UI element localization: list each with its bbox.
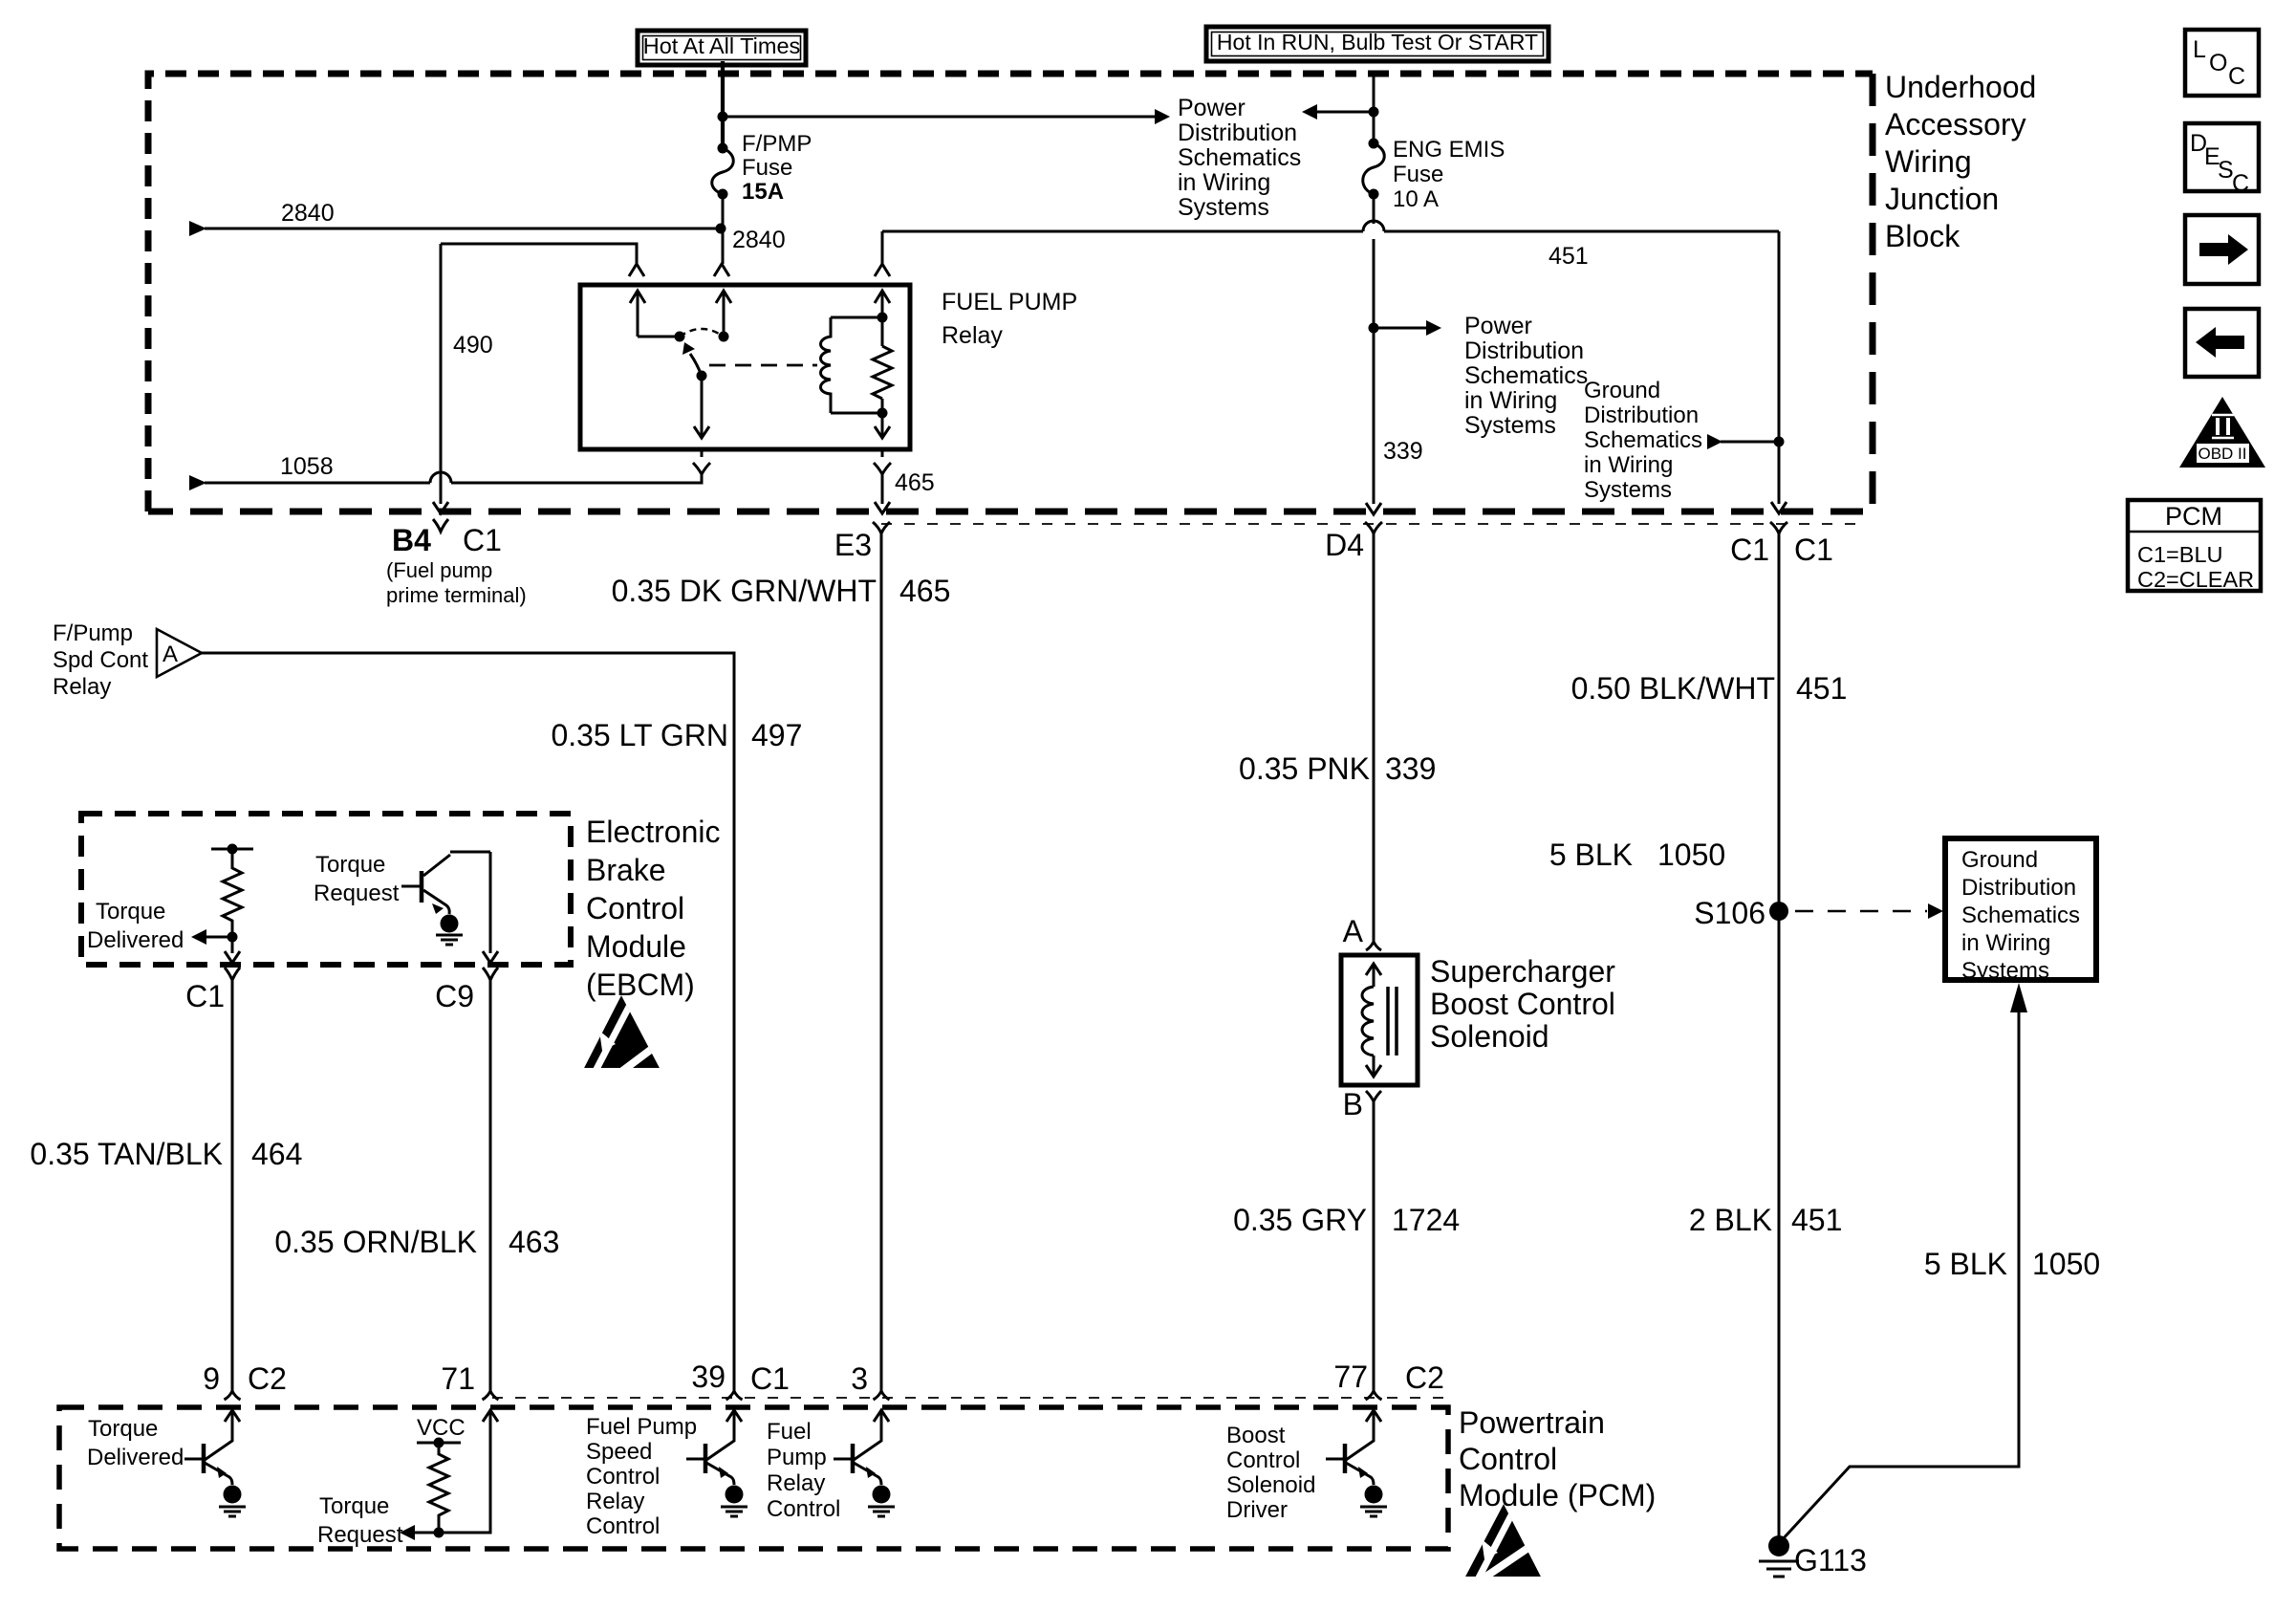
svg-text:5 BLK: 5 BLK — [1924, 1247, 2007, 1281]
svg-text:0.35 ORN/BLK: 0.35 ORN/BLK — [274, 1225, 477, 1259]
wire: reference arrow pointing left (Power Distribution) — [1302, 104, 1374, 120]
svg-text:Schematics: Schematics — [1961, 903, 2080, 928]
fuse ENG EMIS 10 A — [1363, 139, 1385, 200]
svg-text:451: 451 — [1796, 671, 1847, 706]
ground G113 — [1759, 1535, 1799, 1577]
wire: 451 line from relay pin3 corner to C1 corner (hop at ENG EMIS) — [882, 221, 1779, 231]
connector chevron above relay pin 3 — [875, 264, 890, 276]
svg-text:Systems: Systems — [1178, 194, 1269, 221]
label: 5 BLK 1050 (lower) — [1924, 1247, 2100, 1281]
node: coil bottom — [877, 408, 888, 419]
connector chevron solenoid pin A — [1366, 942, 1381, 950]
svg-text:Fuse: Fuse — [1393, 162, 1443, 187]
node: junction to right reference arrow — [1369, 323, 1379, 334]
svg-text:in Wiring: in Wiring — [1584, 452, 1673, 478]
svg-text:Supercharger: Supercharger — [1430, 954, 1615, 989]
label: Power Distribution Schematics in Wiring Systems (right block) — [1464, 313, 1588, 439]
svg-text:Request: Request — [317, 1522, 403, 1548]
wire: 1724 GRY from solenoid B to PCM pin 77 — [1373, 1107, 1375, 1392]
svg-text:Solenoid: Solenoid — [1430, 1019, 1549, 1054]
legend box: arrow left — [2185, 309, 2259, 377]
svg-text:Control: Control — [767, 1496, 840, 1522]
svg-text:15A: 15A — [742, 179, 784, 205]
svg-text:F/PMP: F/PMP — [742, 131, 812, 157]
svg-text:39: 39 — [691, 1360, 726, 1394]
connector chevron pin 71 — [483, 1391, 499, 1400]
wire: 463 down to PCM pin 71 — [489, 985, 492, 1392]
relay pin 1 internal terminal arrow — [630, 291, 645, 337]
svg-text:Distribution: Distribution — [1961, 875, 2076, 901]
wire: fuse to 2840 junction — [722, 194, 725, 228]
label box: Hot In RUN, Bulb Test Or START — [1206, 27, 1549, 61]
wire: reference arrow to Power Distribution Schematics (right) — [1374, 320, 1441, 336]
svg-text:0.35 TAN/BLK: 0.35 TAN/BLK — [30, 1137, 223, 1171]
wire: 497 from triangle A to PCM pin 39 — [202, 653, 734, 1392]
relay internal resistor (parallel with coil) — [873, 346, 892, 399]
svg-text:10 A: 10 A — [1393, 186, 1439, 212]
svg-text:C2=CLEAR: C2=CLEAR — [2137, 567, 2254, 592]
ground: pin 3 transistor emitter — [868, 1486, 895, 1517]
wire: C1 vertical inside junction block with arrow — [1771, 231, 1787, 513]
ESD symbol (PCM) — [1465, 1504, 1549, 1599]
svg-text:Hot At All Times: Hot At All Times — [643, 33, 801, 58]
svg-text:C: C — [2228, 63, 2245, 90]
ground: pin 77 transistor emitter — [1360, 1486, 1387, 1517]
wire: ground box down to G113 (arrow up into box) — [1782, 983, 2027, 1540]
dashed arc between contacts — [680, 329, 724, 337]
svg-text:Relay: Relay — [53, 674, 111, 700]
legend box: DESC — [2185, 123, 2259, 197]
svg-text:O: O — [2209, 50, 2227, 76]
relay box: FUEL PUMP Relay — [580, 285, 910, 449]
svg-text:C1: C1 — [185, 979, 225, 1013]
svg-text:Delivered: Delivered — [87, 927, 184, 953]
solenoid coil with terminal arrows — [1362, 964, 1381, 1077]
node: coil top — [877, 313, 888, 323]
svg-text:Control: Control — [586, 891, 684, 925]
node: pin 2 fixed contact — [719, 332, 729, 342]
label: Powertrain Control Module (PCM) — [1459, 1405, 1656, 1512]
label: F/PMP Fuse 15A — [742, 131, 812, 205]
node: junction to left reference arrow — [1369, 107, 1379, 118]
label: F/Pump Spd Cont Relay — [53, 620, 148, 700]
svg-text:Brake: Brake — [586, 853, 666, 887]
wire: 465 from relay pin 3 to border with arrow — [875, 474, 890, 513]
svg-text:Accessory: Accessory — [1885, 107, 2026, 141]
relay coil — [821, 317, 832, 413]
arrow: D4 wire into border — [1366, 503, 1381, 514]
ground: pin 9 transistor emitter — [219, 1486, 246, 1517]
svg-text:451: 451 — [1791, 1203, 1842, 1237]
svg-text:Request: Request — [314, 881, 400, 906]
svg-text:77: 77 — [1333, 1360, 1368, 1394]
svg-text:Hot In RUN, Bulb Test Or START: Hot In RUN, Bulb Test Or START — [1217, 30, 1538, 54]
svg-text:490: 490 — [453, 332, 493, 359]
svg-text:Torque: Torque — [315, 852, 385, 878]
label: Ground Distribution Schematics in Wiring Systems (text block) — [1584, 378, 1702, 503]
box: Ground Distribution Schematics in Wiring Systems — [1945, 838, 2096, 984]
solenoid core bars — [1388, 987, 1397, 1055]
wire: ENG EMIS fuse down to D4 (with hop at 451 crossing) — [1373, 194, 1375, 504]
svg-text:Systems: Systems — [1464, 412, 1556, 439]
relay internal: switch common link — [638, 336, 680, 338]
node: junction on hot feed — [718, 112, 728, 122]
svg-text:451: 451 — [1549, 243, 1589, 270]
label: ENG EMIS Fuse 10 A — [1393, 137, 1505, 212]
node: splice S106 — [1769, 902, 1788, 921]
connector chevron above relay pin 1 — [629, 264, 644, 276]
legend: OBD II triangle — [2179, 397, 2265, 468]
connector chevron below relay pin 3 — [874, 451, 891, 483]
svg-text:0.35 PNK: 0.35 PNK — [1239, 751, 1370, 786]
svg-text:Delivered: Delivered — [87, 1445, 184, 1470]
wire: 464 down to PCM pin 9 — [231, 985, 234, 1392]
label: Torque Delivered (EBCM) — [87, 899, 184, 953]
label: 0.50 BLK/WHT 451 — [1571, 671, 1848, 706]
svg-text:Distribution: Distribution — [1464, 337, 1584, 364]
wire: 451 branch corner down to relay pin 3 — [881, 231, 884, 264]
svg-text:465: 465 — [895, 469, 935, 496]
node: torque delivered junction — [227, 932, 238, 943]
label: 0.35 DK GRN/WHT 465 — [612, 574, 951, 608]
wire: pin 71 internal with arrow — [439, 1410, 498, 1533]
svg-text:A: A — [162, 642, 178, 667]
connector chevron B4 — [433, 519, 448, 532]
svg-text:S106: S106 — [1694, 896, 1765, 930]
svg-text:339: 339 — [1385, 751, 1436, 786]
connector chevron above relay pin 2 — [714, 264, 729, 276]
svg-text:Ground: Ground — [1961, 847, 2038, 873]
svg-text:C1: C1 — [463, 523, 502, 557]
wire: hot feed from Hot At All Times down to F/PMP fuse — [721, 61, 725, 145]
svg-text:C2: C2 — [248, 1361, 287, 1396]
svg-text:463: 463 — [509, 1225, 559, 1259]
connector chevron C1 (EBCM) — [225, 968, 240, 987]
svg-text:F/Pump: F/Pump — [53, 620, 133, 646]
svg-text:D4: D4 — [1325, 528, 1364, 562]
svg-text:C1: C1 — [1730, 533, 1769, 567]
label: Supercharger Boost Control Solenoid — [1430, 954, 1615, 1054]
label: Torque Request (EBCM) — [314, 852, 400, 906]
wire: 490 feed line to relay pin 1 — [441, 244, 637, 264]
svg-text:0.35 LT GRN: 0.35 LT GRN — [551, 718, 728, 752]
wire: relay pin 3 down with arrow — [875, 413, 890, 438]
svg-text:Systems: Systems — [1961, 958, 2049, 984]
svg-text:Spd Cont: Spd Cont — [53, 647, 148, 673]
wire: coil top node link — [831, 316, 882, 319]
svg-text:Torque: Torque — [319, 1493, 389, 1519]
dashed reference from S106 to ground distribution box — [1795, 903, 1943, 919]
label: 0.35 LT GRN 497 — [551, 718, 802, 752]
svg-text:Fuel Pump: Fuel Pump — [586, 1414, 697, 1440]
wire: reference arrow to Power Distribution Schematics (right) — [723, 116, 1155, 119]
svg-text:Relay: Relay — [586, 1489, 644, 1514]
connector chevron pin 3 — [874, 1391, 890, 1400]
dashed mechanical linkage to coil — [709, 364, 817, 367]
label: Torque Delivered (PCM) — [87, 1416, 184, 1470]
svg-text:G113: G113 — [1794, 1543, 1867, 1577]
svg-text:Torque: Torque — [96, 899, 165, 925]
svg-text:(EBCM): (EBCM) — [586, 968, 695, 1002]
connector chevron C9 (EBCM) — [483, 968, 498, 987]
svg-text:A: A — [1343, 914, 1364, 948]
wire: EBCM C1 output with arrow — [225, 937, 240, 963]
label: Boost Control Solenoid Driver — [1226, 1423, 1315, 1523]
ground: pin 39 transistor emitter — [721, 1486, 747, 1517]
wire: 490 vertical down to B4 with arrow — [433, 244, 448, 513]
wire: 451 BLK/WHT from C1 down to G113 — [1778, 539, 1781, 1537]
svg-text:in Wiring: in Wiring — [1961, 930, 2050, 956]
svg-text:Relay: Relay — [942, 322, 1003, 349]
svg-text:in Wiring: in Wiring — [1464, 387, 1557, 414]
svg-text:PCM: PCM — [2165, 502, 2222, 531]
svg-text:C: C — [2232, 170, 2249, 197]
wire: torque request arrow (left) — [400, 1525, 439, 1540]
label box: Hot At All Times — [638, 31, 806, 65]
underhood accessory wiring junction block (dashed box) — [148, 74, 1873, 511]
transistor: boost control solenoid driver (pin 77) — [1326, 1410, 1381, 1485]
node: switch common contact — [675, 332, 685, 342]
svg-text:Control: Control — [1459, 1442, 1557, 1476]
svg-text:C1: C1 — [1794, 533, 1833, 567]
ESD symbol (EBCM) — [584, 989, 732, 1080]
connector chevron E3 — [873, 522, 890, 541]
label: FUEL PUMP Relay — [942, 289, 1077, 349]
svg-text:prime terminal): prime terminal) — [386, 583, 527, 607]
legend box: LOC — [2185, 30, 2259, 96]
svg-text:497: 497 — [751, 718, 802, 752]
label: Fuel Pump Relay Control — [767, 1419, 840, 1522]
svg-text:Module: Module — [586, 929, 686, 964]
label: (Fuel pump prime terminal) — [386, 558, 527, 607]
connector chevron solenoid pin B — [1366, 1091, 1381, 1109]
wire: ground distribution reference to C1 wire — [1707, 434, 1785, 449]
svg-text:0.35 DK GRN/WHT: 0.35 DK GRN/WHT — [612, 574, 877, 608]
wire: EBCM C9 output with arrow — [483, 852, 498, 963]
svg-text:L: L — [2193, 36, 2206, 63]
svg-text:Power: Power — [1464, 313, 1532, 339]
svg-text:9: 9 — [203, 1361, 220, 1396]
svg-text:Boost: Boost — [1226, 1423, 1286, 1448]
svg-text:Fuse: Fuse — [742, 155, 792, 181]
svg-text:C1=BLU: C1=BLU — [2137, 542, 2222, 567]
svg-text:464: 464 — [251, 1137, 302, 1171]
transistor: fuel pump relay driver (pin 3) — [834, 1410, 889, 1485]
off-page connector triangle A — [157, 629, 202, 677]
svg-text:2 BLK: 2 BLK — [1689, 1203, 1772, 1237]
svg-text:Block: Block — [1885, 219, 1960, 253]
svg-text:1058: 1058 — [280, 453, 334, 480]
svg-text:VCC: VCC — [417, 1415, 466, 1441]
connector chevron pin 77 — [1366, 1391, 1382, 1400]
svg-text:FUEL PUMP: FUEL PUMP — [942, 289, 1077, 315]
svg-text:OBD II: OBD II — [2198, 445, 2246, 463]
transistor: torque delivered driver (pin 9) — [184, 1410, 240, 1485]
svg-text:Boost Control: Boost Control — [1430, 987, 1615, 1021]
svg-text:339: 339 — [1383, 438, 1423, 465]
svg-text:C2: C2 — [1405, 1360, 1444, 1395]
svg-text:Wiring: Wiring — [1885, 144, 1972, 179]
relay switch arm with arrowhead — [682, 342, 702, 376]
wire: coil bottom node link — [831, 412, 882, 415]
connector chevron C1 (PCM harness) — [1770, 522, 1787, 541]
thin dashed connector line (PCM C1) — [492, 1397, 1448, 1399]
svg-text:2840: 2840 — [281, 200, 335, 227]
relay pin 3 internal terminal arrow — [875, 291, 890, 413]
node: 2840 junction — [716, 224, 726, 234]
connector chevron pin 39 — [726, 1391, 743, 1400]
svg-text:Distribution: Distribution — [1584, 402, 1699, 428]
legend box: arrow right — [2185, 215, 2259, 284]
svg-text:0.50 BLK/WHT: 0.50 BLK/WHT — [1571, 671, 1775, 706]
svg-text:C9: C9 — [435, 979, 474, 1013]
svg-text:Control: Control — [586, 1513, 660, 1539]
label: 0.35 ORN/BLK 463 — [274, 1225, 559, 1259]
svg-text:Relay: Relay — [767, 1470, 825, 1496]
svg-text:Powertrain: Powertrain — [1459, 1405, 1605, 1440]
EBCM internal resistor (torque delivered) — [211, 844, 253, 938]
svg-text:(Fuel pump: (Fuel pump — [386, 558, 492, 582]
svg-text:ENG EMIS: ENG EMIS — [1393, 137, 1505, 163]
thin dashed connector line (junction block bottom) — [881, 523, 1864, 525]
svg-text:Speed: Speed — [586, 1439, 652, 1465]
svg-text:Schematics: Schematics — [1584, 427, 1702, 453]
label: Underhood Accessory Wiring Junction Block — [1885, 70, 2036, 253]
svg-text:C1: C1 — [750, 1361, 790, 1396]
wire: torque delivered arrow (left) — [191, 929, 232, 945]
svg-text:Torque: Torque — [88, 1416, 158, 1442]
svg-text:1724: 1724 — [1392, 1203, 1460, 1237]
svg-text:1050: 1050 — [2032, 1247, 2100, 1281]
svg-text:Solenoid: Solenoid — [1226, 1472, 1315, 1498]
label: 2 BLK 451 — [1689, 1203, 1843, 1237]
fuse F/PMP 15A — [712, 143, 734, 200]
legend box: PCM connectors — [2128, 500, 2261, 592]
svg-text:B: B — [1343, 1087, 1363, 1121]
svg-text:Fuel: Fuel — [767, 1419, 812, 1445]
svg-text:Control: Control — [1226, 1447, 1300, 1473]
svg-text:Control: Control — [586, 1464, 660, 1490]
relay pin 2 internal terminal arrow — [716, 291, 731, 337]
svg-text:71: 71 — [441, 1361, 475, 1396]
EBCM box (dashed) — [81, 814, 571, 965]
svg-text:Module (PCM): Module (PCM) — [1459, 1478, 1656, 1512]
svg-text:Pump: Pump — [767, 1445, 827, 1470]
label: 0.35 GRY 1724 — [1233, 1203, 1460, 1237]
label: Fuel Pump Speed Control Relay Control — [586, 1414, 697, 1539]
label: Power Distribution Schematics in Wiring Systems (left block) — [1178, 95, 1301, 221]
PCM box (dashed) — [59, 1407, 1448, 1549]
wire: 2840 junction down to relay pin 2 — [722, 228, 725, 264]
svg-text:in Wiring: in Wiring — [1178, 169, 1270, 196]
svg-text:Systems: Systems — [1584, 477, 1672, 503]
svg-text:Underhood: Underhood — [1885, 70, 2036, 104]
label: 0.35 TAN/BLK 464 — [30, 1137, 302, 1171]
label: 0.35 PNK 339 — [1239, 751, 1436, 786]
svg-text:Driver: Driver — [1226, 1497, 1288, 1523]
resistor: torque request pull-up — [417, 1438, 461, 1534]
svg-text:Electronic: Electronic — [586, 815, 721, 849]
connector chevron below relay pin 2 — [693, 451, 710, 483]
svg-text:3: 3 — [851, 1361, 868, 1396]
wire: 1058 line from left edge to relay pin 2 (hop over 490) — [189, 472, 702, 490]
ground: torque request emitter — [436, 915, 463, 946]
wire 2840 to left edge arrow — [189, 221, 721, 236]
label: Electronic Brake Control Module (EBCM) — [586, 815, 721, 1002]
svg-text:2840: 2840 — [732, 227, 786, 253]
wire: relay pin 2 output down with arrow — [694, 376, 709, 438]
transistor: torque request (EBCM) — [401, 852, 490, 914]
wire: 339 PNK from D4 to solenoid A — [1373, 539, 1375, 943]
svg-text:Schematics: Schematics — [1464, 362, 1588, 389]
svg-text:Schematics: Schematics — [1178, 144, 1301, 171]
wire: 465 DK GRN/WHT from E3 to PCM pin 3 — [880, 539, 883, 1392]
svg-text:Junction: Junction — [1885, 182, 1999, 216]
solenoid box: Supercharger Boost Control Solenoid — [1341, 955, 1418, 1085]
svg-text:5 BLK: 5 BLK — [1549, 838, 1633, 872]
label: Torque Request (PCM) — [317, 1493, 403, 1548]
svg-text:Power: Power — [1178, 95, 1245, 121]
svg-text:Ground: Ground — [1584, 378, 1660, 403]
node: torque request junction — [434, 1528, 444, 1538]
svg-text:0.35 GRY: 0.35 GRY — [1233, 1203, 1367, 1237]
transistor: fuel pump speed control relay driver (pin 39) — [686, 1410, 742, 1485]
svg-text:B4: B4 — [392, 523, 431, 557]
connector chevron pin 9 — [225, 1391, 241, 1400]
wire: ENG EMIS feed from dashed border down — [1373, 76, 1375, 145]
svg-text:Distribution: Distribution — [1178, 120, 1297, 146]
label: 5 BLK 1050 (upper) — [1549, 838, 1725, 872]
node: switch arm pivot contact — [697, 371, 707, 381]
svg-text:E3: E3 — [834, 528, 872, 562]
svg-text:1050: 1050 — [1657, 838, 1725, 872]
svg-text:465: 465 — [899, 574, 950, 608]
connector chevron D4 — [1365, 522, 1382, 541]
